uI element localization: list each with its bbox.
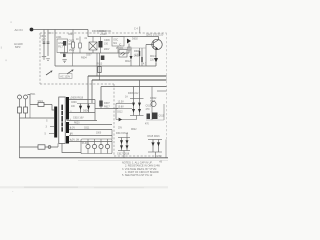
resistor R602	[79, 37, 82, 54]
ground G2	[62, 60, 66, 63]
wire stub x72	[72, 53, 74, 66]
wire prong left down	[19, 99, 21, 107]
resistor R605 body	[63, 54, 66, 57]
bridge rectifier D601	[89, 42, 97, 50]
svg-text:S601: S601	[38, 100, 44, 103]
secondary tap6 wire	[69, 135, 112, 137]
svg-text:470: 470	[146, 108, 151, 111]
bridge output drop	[136, 116, 138, 120]
rect cluster top rail	[118, 137, 130, 139]
wire 12.5V	[116, 103, 132, 105]
svg-text:12.5V: 12.5V	[118, 100, 125, 103]
bridge diode col2	[138, 80, 141, 116]
ground G1b	[46, 59, 50, 60]
wire double vertical right	[99, 53, 101, 80]
wire y86 drop	[100, 87, 102, 101]
cluster2 drop	[155, 152, 157, 158]
pilot lamp 1	[86, 139, 90, 154]
plug prong left	[18, 95, 22, 99]
secondary tap1 wire	[69, 99, 95, 101]
zener D603 lead	[130, 60, 132, 66]
wire rail y86	[101, 86, 167, 88]
dashed boundary top	[40, 32, 167, 34]
svg-text:1A: 1A	[125, 96, 128, 99]
capacitor C602 lead	[47, 30, 49, 57]
svg-text:200V: 200V	[104, 49, 110, 51]
transformer left tap 133	[49, 133, 54, 135]
svg-text:+B: +B	[159, 160, 162, 163]
capacitor C601 plates	[43, 42, 50, 44]
transistor Q601 emitter wire	[155, 49, 157, 58]
diode D602 arrow	[127, 39, 131, 44]
control block lead	[117, 46, 119, 53]
resistor R605 lead	[63, 53, 65, 57]
wire y91 stub	[157, 90, 167, 92]
svg-text:5. SEE PARTS LIST PG 12: 5. SEE PARTS LIST PG 12	[122, 174, 153, 177]
transistor Q604 body	[99, 101, 102, 107]
svg-text:C604: C604	[68, 34, 74, 36]
pilot lamp 4	[105, 139, 109, 154]
base resistor wire	[145, 45, 147, 67]
scan artifact left edge	[1, 22, 12, 62]
wire x112 drop	[111, 130, 113, 140]
wire double vertical left	[96, 53, 98, 76]
dashed boundary bottom	[114, 155, 162, 157]
capacitor C606 leads	[100, 37, 102, 54]
svg-text:SW REG 601: SW REG 601	[97, 30, 112, 33]
svg-text:D602: D602	[132, 38, 138, 41]
label box AC120V	[59, 74, 72, 79]
wire x30 drop	[29, 105, 31, 119]
diode D602 lead	[128, 44, 130, 54]
dashed boundary left	[39, 33, 41, 84]
svg-text:25V: 25V	[118, 128, 123, 130]
resistor R601	[72, 30, 75, 54]
svg-text:C610 16V: C610 16V	[73, 117, 84, 120]
svg-text:250V: 250V	[69, 50, 75, 52]
wire x116 link	[115, 104, 117, 120]
assorted small value labels bottom section	[30, 94, 150, 134]
svg-text:C617 C618: C617 C618	[117, 153, 130, 156]
wire y120	[146, 119, 164, 121]
transformer T601 vertical label	[61, 105, 63, 132]
wire y119	[116, 119, 137, 121]
transistor Q601	[146, 39, 162, 49]
wire lower rail top section	[60, 52, 129, 54]
capacitor C603 leads	[64, 46, 66, 53]
wire rail drop left	[87, 76, 89, 109]
dashed boundary mid vertical	[113, 84, 115, 156]
photocoupler PC601	[119, 50, 127, 58]
arrow on y119	[119, 118, 122, 122]
svg-text:150: 150	[104, 43, 109, 46]
bridge leads	[92, 37, 94, 54]
wire rail B+ upper	[88, 75, 167, 77]
wire switch row	[30, 104, 52, 106]
svg-text:P601: P601	[30, 94, 36, 96]
diode D604	[154, 58, 158, 63]
secondary tap3 wire	[69, 112, 95, 114]
wire y108	[95, 108, 118, 110]
svg-text:R604: R604	[81, 57, 87, 60]
node circle on degauss row	[48, 146, 51, 149]
diode D615	[151, 140, 154, 153]
svg-text:60Hz: 60Hz	[15, 46, 21, 49]
cluster feed	[126, 133, 128, 138]
svg-text:Q601 2SC3150: Q601 2SC3150	[146, 34, 164, 37]
svg-text:C609: C609	[71, 102, 77, 104]
svg-text:R613: R613	[97, 63, 103, 66]
svg-text:AC IN: AC IN	[15, 28, 23, 32]
transformer left tap 126	[50, 126, 54, 128]
svg-text:6.3V: 6.3V	[70, 126, 75, 129]
svg-text:10.8V: 10.8V	[118, 105, 125, 108]
secondary tap7 wire	[69, 141, 112, 143]
svg-text:R612: R612	[125, 61, 131, 63]
svg-text:D606: D606	[83, 109, 89, 112]
node AC input dot	[30, 28, 34, 32]
ground G1	[42, 57, 46, 60]
svg-text:R614: R614	[150, 56, 156, 58]
wire y48 link	[119, 47, 146, 49]
fuse F601	[18, 107, 22, 113]
diode D606	[87, 104, 90, 113]
secondary tap y124.5 wire	[69, 124, 112, 126]
bridge top rail	[130, 98, 144, 100]
pilot lamp 3	[99, 139, 103, 154]
resistor R607	[128, 47, 132, 50]
capacitor C601 lead	[43, 30, 45, 57]
wire rail y66	[55, 65, 156, 67]
wire top-right stub	[139, 27, 141, 34]
svg-text:C612: C612	[117, 111, 123, 113]
capacitor C603 body	[63, 41, 66, 46]
secondary diode rail top	[77, 103, 95, 105]
svg-text:PL601: PL601	[82, 142, 90, 145]
resistor R611	[141, 48, 142, 66]
svg-text:AC 120V: AC 120V	[60, 75, 70, 78]
svg-text:R617: R617	[104, 106, 110, 109]
wire x164	[163, 104, 165, 120]
diode D614	[126, 138, 129, 151]
transistor Q601 collector wire	[158, 37, 160, 40]
svg-text:+5V: +5V	[157, 156, 162, 158]
assorted small value labels top section	[50, 33, 157, 65]
wire 10.8V	[116, 108, 132, 110]
transistor Q603 body	[101, 56, 105, 61]
diode D605	[79, 104, 82, 113]
fuse F602	[24, 107, 28, 113]
wire fuse2 down	[25, 113, 27, 118]
svg-text:IC: IC	[119, 45, 122, 47]
svg-text:C611: C611	[84, 128, 90, 130]
svg-text:.047: .047	[41, 39, 46, 42]
wire plug top link	[28, 95, 31, 105]
wire x95 vertical	[94, 100, 96, 121]
dashed boundary mid horizontal	[40, 83, 114, 85]
pilot lamp box	[81, 139, 112, 154]
diode D613	[120, 138, 123, 151]
wire degauss row	[20, 146, 59, 148]
scan artifact band bottom	[0, 186, 168, 188]
transformer T601 left winding bar	[54, 107, 57, 138]
resistor R613 body	[98, 67, 101, 73]
svg-text:C607: C607	[86, 55, 92, 57]
svg-text:PC601: PC601	[116, 47, 124, 50]
svg-text:R622: R622	[131, 129, 137, 131]
switch S601	[38, 103, 44, 107]
diode D604 lead	[155, 63, 157, 67]
zener D603 body	[130, 56, 133, 60]
wire corner x152	[151, 87, 153, 121]
svg-text:+310V: +310V	[100, 34, 107, 36]
arrow mark A1	[46, 71, 53, 76]
svg-text:C 4: C 4	[134, 28, 138, 31]
secondary tap5 wire	[69, 129, 112, 131]
cluster2 top rail	[148, 139, 162, 141]
plug prong right	[24, 95, 28, 99]
svg-text:4.5V 1W: 4.5V 1W	[70, 138, 80, 141]
wire AC top rail	[33, 29, 88, 31]
capacitor C606 body	[99, 41, 103, 48]
bottom rail	[20, 157, 169, 159]
capacitor C613 circle	[151, 101, 156, 106]
thermistor TH601	[38, 145, 45, 149]
transistor Q601 emitter arrow	[155, 47, 158, 50]
wire degauss up	[57, 144, 59, 148]
transformer bottom lead	[62, 144, 81, 153]
svg-text:R620: R620	[74, 123, 80, 125]
transformer T601 label box	[59, 97, 65, 144]
svg-text:D615 D616: D615 D616	[148, 135, 161, 138]
transformer T601 right bar seg2	[66, 122, 69, 133]
bridge diode col1	[132, 87, 135, 116]
wire right edge drop	[165, 140, 167, 158]
svg-text:FILT: FILT	[58, 46, 63, 49]
transformer T601 right bar seg1	[66, 97, 69, 120]
zener D603 lead top	[130, 48, 132, 56]
svg-text:D605 R619: D605 R619	[71, 97, 84, 100]
diode D616	[157, 140, 160, 153]
wire switch to transformer	[52, 105, 54, 111]
wire rail drop right	[91, 80, 93, 103]
cluster bottom rail	[118, 150, 130, 152]
arrow mark A2	[67, 70, 74, 75]
svg-text:L601: L601	[56, 36, 62, 39]
wire prong right down	[25, 99, 27, 107]
bottom rail faint second	[78, 160, 168, 162]
wire left loop down	[19, 113, 21, 158]
capacitor C615 body	[152, 113, 158, 120]
wire Q604 emitter	[100, 107, 102, 109]
control block box	[112, 37, 124, 47]
cluster2 bottom rail	[148, 151, 162, 153]
bridge bottom rail	[130, 115, 144, 117]
cluster drop	[123, 151, 125, 158]
wire drop to bridge rail	[88, 30, 159, 37]
wire rail B+ lower	[92, 79, 167, 81]
svg-text:OSC: OSC	[113, 40, 118, 42]
transformer pin numbers	[70, 98, 73, 142]
capacitor C614 body	[147, 114, 151, 120]
resistor R610	[139, 48, 140, 66]
line filter box L601	[57, 39, 68, 53]
transformer T601 right bar seg3	[66, 136, 69, 144]
svg-text:8V: 8V	[70, 132, 73, 135]
wire left of filter	[54, 30, 56, 67]
secondary tap4 wire	[67, 120, 98, 122]
pilot lamp 2	[92, 139, 96, 154]
svg-text:1000: 1000	[96, 133, 102, 135]
wire AC rail to transformer	[20, 117, 55, 119]
dashed boundary right	[166, 33, 168, 140]
